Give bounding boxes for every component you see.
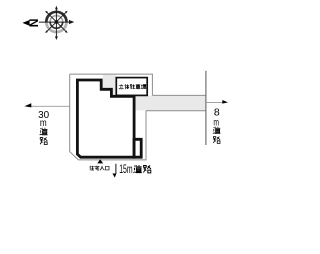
15m road leader line with down arrow — [115, 164, 117, 174]
left arrow line (30m road) — [27, 105, 70, 107]
right arrow line (8m road) — [206, 101, 226, 103]
E-W spoke — [39, 21, 71, 23]
outer ring bottom (light) — [46, 22, 66, 32]
gray driveway strip top (between boundary, wall and parking box) — [103, 75, 116, 95]
entrance triangle — [97, 159, 103, 163]
N-S spoke — [55, 8, 57, 38]
white background — [0, 0, 254, 254]
compass group — [22, 6, 74, 40]
entrance label 住宅入口 — [90, 166, 109, 171]
svg-text:15m: 15m — [119, 162, 132, 176]
right arrowhead — [222, 100, 228, 104]
east arrowhead — [69, 20, 74, 24]
gray road corridor band to 8m road — [136, 96, 206, 111]
parking label text 立体駐車場 — [119, 84, 146, 89]
outer ring top (dark) — [46, 12, 66, 22]
north arrowhead — [22, 20, 29, 26]
annex box bottom-right of building — [134, 139, 141, 157]
svg-text:m: m — [40, 118, 47, 129]
gray sliver under parking box — [142, 96, 153, 111]
hub — [55, 20, 59, 24]
thick building wall — [77, 80, 134, 157]
8m road west edge line — [205, 71, 207, 145]
inner ring top (light) — [50, 16, 63, 22]
band top edge line — [152, 94, 205, 96]
inner ring bottom (dark) — [50, 22, 63, 28]
svg-text:8: 8 — [214, 106, 220, 118]
parking label box — [116, 78, 147, 96]
outer site boundary (thin gray line) — [70, 74, 153, 160]
left arrowhead — [24, 103, 31, 107]
diagonal tips — [45, 11, 48, 14]
band bottom edge line — [146, 110, 206, 112]
spokes diagonals — [47, 12, 67, 32]
